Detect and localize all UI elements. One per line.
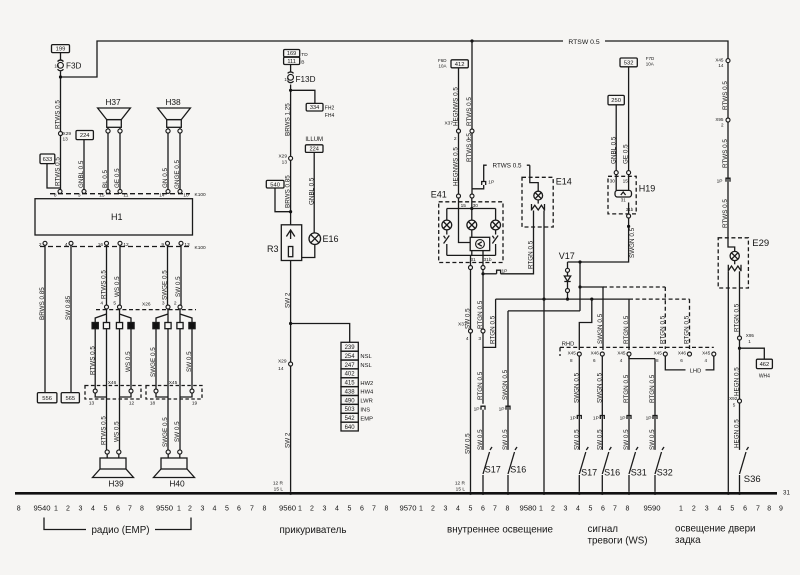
pin 10 of H1 (top row) bbox=[178, 189, 182, 193]
svg-text:SW 0.5: SW 0.5 bbox=[623, 429, 630, 450]
connector X29 pin 13 on radio feed bbox=[59, 132, 63, 136]
wire GNBL 0.5 from box 224 to H1 pin 3 bbox=[83, 140, 85, 192]
section caption: radio (EMP) with bracket bbox=[44, 518, 86, 530]
svg-text:1: 1 bbox=[467, 136, 470, 142]
svg-text:1: 1 bbox=[298, 505, 302, 512]
dashed variant wire to LHD connector X46 pin 6 bbox=[629, 299, 690, 349]
svg-text:503: 503 bbox=[345, 407, 356, 413]
svg-text:15: 15 bbox=[623, 178, 629, 184]
svg-text:13: 13 bbox=[89, 401, 95, 407]
svg-text:5: 5 bbox=[348, 505, 352, 512]
svg-text:565: 565 bbox=[65, 396, 75, 402]
connector X46 pin 6 (alarm) bbox=[600, 352, 604, 356]
wire SWGN 0.5 to alarm switch S17 bbox=[578, 356, 580, 450]
pin 30 of H19 bbox=[614, 171, 618, 175]
pin 4 of H1 (bottom row) bbox=[69, 241, 73, 245]
courtesy lamp unit E14 bbox=[522, 177, 553, 227]
svg-text:F6D: F6D bbox=[438, 58, 447, 63]
connector row K100 bottom of radio H1 bbox=[40, 246, 190, 248]
wire SW 0.85 from H1 pin 4 to box 565 bbox=[70, 245, 72, 392]
connector X45 pin 8 (alarm) bbox=[577, 352, 581, 356]
wire BRWS 0.85 from H1 pin 2 to box 556 bbox=[44, 245, 46, 392]
svg-text:199: 199 bbox=[56, 47, 66, 53]
lamp 1 of E41 bbox=[442, 220, 452, 230]
wire WS 0.5 contact to connector X46 pin 12 bbox=[130, 329, 132, 389]
lamp of E29 bbox=[730, 251, 739, 260]
svg-text:6: 6 bbox=[481, 505, 485, 512]
tailgate lamp unit E29 bbox=[718, 238, 748, 288]
svg-text:2: 2 bbox=[721, 123, 724, 128]
svg-text:RTSW 0.5: RTSW 0.5 bbox=[568, 39, 599, 46]
terminal box 556 bbox=[37, 393, 57, 403]
wire vertical alarm feed node bbox=[579, 262, 581, 311]
connector 1P on interior switch S17 wire bbox=[481, 406, 485, 410]
svg-text:9590: 9590 bbox=[643, 503, 660, 512]
svg-text:HEGN 0.5: HEGN 0.5 bbox=[734, 367, 741, 396]
wire from box 199 to fuse F3D bbox=[60, 53, 62, 60]
svg-text:12: 12 bbox=[123, 242, 129, 248]
svg-text:6: 6 bbox=[360, 505, 364, 512]
svg-text:9560: 9560 bbox=[279, 503, 296, 512]
junction of bus with interior lighting feed bbox=[470, 39, 473, 42]
svg-text:RTGN 0.5: RTGN 0.5 bbox=[734, 303, 741, 332]
svg-text:6: 6 bbox=[237, 505, 241, 512]
LHD variant bracket bbox=[665, 356, 685, 370]
svg-text:224: 224 bbox=[80, 133, 90, 139]
svg-text:9570: 9570 bbox=[399, 503, 416, 512]
svg-text:X46: X46 bbox=[591, 351, 600, 356]
svg-text:1P: 1P bbox=[620, 416, 626, 422]
svg-text:12 R: 12 R bbox=[273, 480, 284, 486]
svg-text:TD: TD bbox=[301, 52, 308, 58]
svg-text:WS 0.5: WS 0.5 bbox=[114, 421, 121, 442]
connector X37 pin 1 bbox=[470, 129, 474, 133]
svg-text:X45: X45 bbox=[654, 351, 663, 356]
wire GN 0.5 speaker H38 left to H1 pin 14 bbox=[167, 133, 169, 191]
svg-text:169: 169 bbox=[287, 51, 296, 57]
svg-text:15: 15 bbox=[99, 192, 105, 198]
svg-text:6: 6 bbox=[743, 505, 747, 512]
plug contact (filled) bbox=[92, 323, 98, 329]
svg-text:16: 16 bbox=[98, 242, 104, 248]
pin 13 of H1 (bottom row) bbox=[179, 241, 183, 245]
svg-text:14: 14 bbox=[278, 366, 284, 372]
svg-text:640: 640 bbox=[345, 425, 356, 431]
svg-text:2: 2 bbox=[431, 505, 435, 512]
wire RTWS 0.5 from H1 pin 16 to connector X26 pin 4 bbox=[106, 245, 108, 305]
door switch S17 (alarm) bbox=[579, 452, 586, 474]
connector X26 pin 2 bbox=[178, 305, 182, 309]
wire GNBL 0.5 from box 224 to bulb E16 bbox=[313, 152, 315, 233]
wire E14 switch left contact to 1P/RTGN net bbox=[533, 211, 535, 228]
wire SWGN 0.5 alarm net to interior switch S16 bbox=[507, 311, 509, 450]
wire link connector X45 pin 4 to switch S32 bbox=[629, 356, 655, 450]
svg-text:7: 7 bbox=[756, 505, 760, 512]
connector X92 pin 5 bbox=[738, 399, 742, 403]
wire ground link V17 to rail dropper bbox=[496, 298, 544, 300]
three-position switch of E14 bbox=[537, 200, 539, 204]
svg-text:13: 13 bbox=[282, 160, 288, 166]
plug contact (filled) bbox=[189, 323, 195, 329]
wire GE 0.5 speaker H37 right to H1 pin 11 bbox=[119, 133, 121, 191]
svg-text:5: 5 bbox=[733, 403, 736, 408]
svg-text:5: 5 bbox=[225, 505, 229, 512]
svg-text:3: 3 bbox=[564, 505, 568, 512]
svg-text:RTWS 0.5: RTWS 0.5 bbox=[493, 163, 522, 170]
svg-text:WH4: WH4 bbox=[759, 374, 770, 380]
svg-text:12: 12 bbox=[129, 401, 135, 407]
svg-text:SW 2: SW 2 bbox=[285, 292, 292, 308]
svg-text:4: 4 bbox=[705, 358, 708, 363]
svg-text:SWGE 0.5: SWGE 0.5 bbox=[162, 417, 169, 447]
svg-text:SW 0.5: SW 0.5 bbox=[502, 429, 509, 450]
svg-text:6: 6 bbox=[680, 358, 683, 363]
svg-text:3: 3 bbox=[162, 301, 165, 307]
power source box 532 bbox=[620, 58, 637, 67]
svg-text:462: 462 bbox=[760, 362, 770, 368]
svg-text:4: 4 bbox=[466, 336, 469, 342]
svg-text:S36: S36 bbox=[744, 474, 761, 485]
pin 14 of H1 (top row) bbox=[166, 189, 170, 193]
wire RTGN 0.5 to alarm switch S31 bbox=[628, 356, 630, 450]
svg-text:RTWS 0.5: RTWS 0.5 bbox=[101, 270, 108, 299]
svg-text:S17: S17 bbox=[485, 464, 501, 474]
svg-text:H19: H19 bbox=[639, 183, 656, 193]
svg-text:BRWS 1.25: BRWS 1.25 bbox=[285, 103, 292, 136]
wire fan-out X26 pin 3 to plug contacts bbox=[156, 309, 168, 323]
svg-text:5: 5 bbox=[113, 301, 116, 307]
svg-text:8: 8 bbox=[263, 505, 267, 512]
svg-text:15 L: 15 L bbox=[456, 487, 466, 493]
terminal box 633 bbox=[40, 154, 55, 164]
svg-text:RTWS 0.5: RTWS 0.5 bbox=[55, 100, 62, 129]
lamp 2 of E41 bbox=[467, 220, 477, 230]
terminal box 540 bbox=[266, 180, 284, 188]
three-position switch of E29 bbox=[734, 261, 736, 265]
svg-text:V17: V17 bbox=[559, 251, 575, 261]
wire BL 0.5 speaker H37 left to H1 pin 15 bbox=[107, 133, 109, 191]
wire fuse F3D down to radio feed, junction with bus bbox=[60, 72, 62, 192]
svg-text:2: 2 bbox=[310, 505, 314, 512]
svg-text:1P: 1P bbox=[570, 416, 576, 422]
svg-text:31: 31 bbox=[621, 198, 627, 203]
svg-text:3: 3 bbox=[79, 505, 83, 512]
wire fan-out X26 pin 4 to plug contacts bbox=[95, 309, 106, 323]
svg-text:H38: H38 bbox=[165, 97, 181, 107]
svg-text:X29: X29 bbox=[278, 153, 287, 159]
svg-text:1: 1 bbox=[419, 505, 423, 512]
connector X46 pin 13 bbox=[93, 389, 97, 393]
pin 3 of H1 (top row) bbox=[82, 189, 86, 193]
svg-text:31: 31 bbox=[470, 257, 476, 263]
svg-text:GN 0.5: GN 0.5 bbox=[162, 168, 169, 188]
svg-text:H40: H40 bbox=[169, 479, 185, 489]
svg-text:SW 0.5: SW 0.5 bbox=[186, 351, 193, 372]
svg-text:10A: 10A bbox=[438, 64, 446, 69]
plug contact (filled) bbox=[153, 323, 159, 329]
wire horizontal link from interior S16 wire bbox=[508, 310, 580, 312]
svg-text:239: 239 bbox=[345, 345, 356, 351]
wire SW 0.5 from H1 pin 13 to connector X26 pin 2 bbox=[180, 245, 182, 305]
svg-text:R3: R3 bbox=[267, 244, 279, 254]
svg-text:X45: X45 bbox=[715, 57, 724, 62]
svg-text:30: 30 bbox=[610, 178, 616, 184]
svg-text:490: 490 bbox=[345, 398, 356, 404]
plug contact (open) bbox=[103, 323, 109, 329]
pin 8 of H1 (top row) bbox=[58, 189, 62, 193]
svg-text:6: 6 bbox=[116, 505, 120, 512]
wire E29 left contact direct to ground rail bbox=[727, 271, 729, 491]
svg-text:15: 15 bbox=[284, 77, 289, 82]
connector X46 pin 12 bbox=[129, 389, 133, 393]
svg-text:GNBL 0.5: GNBL 0.5 bbox=[610, 136, 617, 164]
svg-text:RTWS 0.5: RTWS 0.5 bbox=[89, 346, 96, 375]
svg-text:прикуриватель: прикуриватель bbox=[280, 525, 347, 536]
svg-text:SW 0.5: SW 0.5 bbox=[175, 276, 182, 297]
plug contact (open) bbox=[165, 323, 171, 329]
svg-text:X46: X46 bbox=[678, 351, 687, 356]
svg-text:31b: 31b bbox=[483, 257, 491, 263]
pin 9 of H1 (bottom row) bbox=[166, 241, 170, 245]
wire lamp supply rail inside E41 bbox=[447, 209, 496, 221]
svg-text:14: 14 bbox=[159, 192, 165, 198]
svg-text:532: 532 bbox=[624, 61, 634, 67]
svg-text:SW 0.5: SW 0.5 bbox=[649, 429, 656, 450]
svg-text:FH2: FH2 bbox=[325, 106, 335, 112]
wire branch to alarm switch S17 feed bbox=[579, 299, 592, 350]
svg-text:8: 8 bbox=[656, 358, 659, 363]
svg-text:RTGN 0.5: RTGN 0.5 bbox=[528, 240, 535, 269]
cigarette lighter R3 bbox=[281, 225, 301, 261]
svg-text:RTGN 0.5: RTGN 0.5 bbox=[623, 374, 630, 403]
svg-text:SWGN 0.5: SWGN 0.5 bbox=[573, 372, 580, 403]
wire from box 633 to radio feed bbox=[47, 164, 61, 188]
wire HEGNWS 0.5 box 412 to connector X37 pin 2 bbox=[458, 68, 460, 194]
svg-text:SW 0.85: SW 0.85 bbox=[65, 295, 72, 320]
svg-text:7: 7 bbox=[613, 505, 617, 512]
svg-text:LHD: LHD bbox=[690, 369, 702, 375]
wire RTGN 0.5 E29 right contact to connector X95 pin 1 bbox=[739, 271, 741, 336]
plug contact (open) bbox=[177, 323, 183, 329]
svg-text:7: 7 bbox=[372, 505, 376, 512]
svg-text:RTWS 0.5: RTWS 0.5 bbox=[722, 139, 729, 168]
pin 15 of H1 (top row) bbox=[106, 189, 110, 193]
svg-text:SW 0.5: SW 0.5 bbox=[573, 429, 580, 450]
svg-text:NSL: NSL bbox=[360, 354, 372, 360]
svg-text:SW 2: SW 2 bbox=[285, 432, 292, 448]
svg-text:GE 0.5: GE 0.5 bbox=[114, 168, 121, 188]
svg-text:сигнал: сигнал bbox=[588, 524, 619, 535]
svg-text:18: 18 bbox=[150, 401, 156, 407]
connector 1P on switch S17 wire bbox=[577, 416, 581, 420]
door switch S16 (interior lighting) bbox=[508, 452, 515, 474]
svg-text:438: 438 bbox=[345, 389, 356, 395]
wire label BRWS 0.85 bbox=[290, 160, 292, 224]
connector 1P on switch S31 wire bbox=[627, 416, 631, 420]
fuse F13D bbox=[288, 72, 294, 73]
svg-text:X95: X95 bbox=[746, 333, 755, 338]
svg-text:11: 11 bbox=[123, 192, 128, 198]
svg-text:4: 4 bbox=[91, 505, 95, 512]
svg-text:S32: S32 bbox=[657, 467, 673, 477]
wire branch with 1P connector to lamp E14 bbox=[472, 185, 484, 189]
wire alarm ground distribution (solid part) bbox=[544, 299, 629, 350]
svg-text:13: 13 bbox=[184, 242, 190, 248]
svg-text:H37: H37 bbox=[105, 97, 121, 107]
svg-text:SWGN 0.5: SWGN 0.5 bbox=[629, 227, 636, 258]
wire SWGN 0.5 to alarm switch S16 bbox=[601, 356, 603, 450]
svg-text:1P: 1P bbox=[474, 406, 480, 412]
svg-text:15 L: 15 L bbox=[274, 487, 284, 493]
svg-text:1: 1 bbox=[177, 505, 181, 512]
svg-text:WS 0.5: WS 0.5 bbox=[114, 276, 121, 297]
pin 31b of E41 bbox=[481, 266, 485, 270]
svg-text:10: 10 bbox=[54, 64, 59, 69]
svg-text:K100: K100 bbox=[195, 245, 207, 251]
svg-text:SW 0.5: SW 0.5 bbox=[174, 421, 181, 442]
wire SWGE 0.5 through-feed to speaker H40 left bbox=[167, 329, 169, 450]
svg-text:SWGN 0.5: SWGN 0.5 bbox=[597, 313, 604, 344]
ground rail 31 bbox=[15, 492, 777, 495]
terminal box 565 bbox=[61, 393, 79, 403]
svg-text:GNBL 0.5: GNBL 0.5 bbox=[78, 160, 85, 188]
svg-text:F13D: F13D bbox=[296, 75, 316, 84]
svg-text:3: 3 bbox=[444, 505, 448, 512]
lamp 3 of E41 bbox=[491, 220, 501, 230]
svg-text:8: 8 bbox=[140, 505, 144, 512]
svg-text:1P: 1P bbox=[499, 406, 505, 412]
junction to terminal stack bbox=[289, 322, 292, 325]
svg-text:NSL: NSL bbox=[360, 363, 372, 369]
svg-text:254: 254 bbox=[345, 354, 356, 360]
svg-text:9: 9 bbox=[779, 505, 783, 512]
svg-text:3: 3 bbox=[323, 505, 327, 512]
svg-text:X37: X37 bbox=[444, 121, 453, 127]
svg-text:7: 7 bbox=[128, 505, 132, 512]
svg-text:1: 1 bbox=[679, 505, 683, 512]
plug contact (filled) bbox=[128, 323, 134, 329]
terminal box 462 WH4 bbox=[756, 359, 772, 368]
svg-text:4: 4 bbox=[620, 358, 623, 363]
lamp of E14 bbox=[534, 191, 543, 200]
svg-text:542: 542 bbox=[345, 416, 356, 422]
wire RTGN 0.5 E41 pin 31b to switch S17 bbox=[482, 270, 484, 404]
wire SW 0.5 contact to connector X45 pin 19 bbox=[191, 329, 193, 389]
svg-text:2: 2 bbox=[174, 301, 177, 307]
pin 12 of H1 (bottom row) bbox=[118, 241, 122, 245]
pin 15 of H19 bbox=[627, 171, 631, 175]
svg-text:WS 0.5: WS 0.5 bbox=[125, 351, 132, 372]
connector X37 pin 3 bbox=[481, 329, 485, 333]
fuse F3D bbox=[58, 60, 64, 62]
connector X26 pin 5 bbox=[118, 305, 122, 309]
power source box 111 terminal B bbox=[284, 57, 300, 64]
svg-text:SWGE 0.5: SWGE 0.5 bbox=[150, 347, 157, 377]
svg-text:4: 4 bbox=[335, 505, 339, 512]
svg-text:RTGN 0.5: RTGN 0.5 bbox=[490, 315, 497, 344]
svg-text:RTGN 0.5: RTGN 0.5 bbox=[477, 371, 484, 400]
wire E41 pin 15 to dimmer bbox=[459, 198, 471, 243]
door switch S16 (alarm) bbox=[602, 452, 609, 474]
svg-text:7: 7 bbox=[250, 505, 254, 512]
svg-text:EMP: EMP bbox=[360, 416, 373, 422]
svg-text:ILLUM: ILLUM bbox=[305, 137, 323, 143]
svg-text:SWGN 0.5: SWGN 0.5 bbox=[596, 372, 603, 403]
svg-text:31b: 31b bbox=[626, 207, 634, 212]
tailgate switch S36 bbox=[740, 452, 747, 474]
svg-text:RTWS 0.5: RTWS 0.5 bbox=[466, 97, 473, 126]
connector X95 pin 2 bbox=[726, 118, 730, 122]
pin 30 of E41 bbox=[470, 194, 474, 198]
wire RTWS 0.5 through-feed to speaker H39 left bbox=[106, 329, 108, 450]
svg-text:111: 111 bbox=[287, 59, 296, 65]
pin 2 of H1 (bottom row) bbox=[43, 241, 47, 245]
connector 1P on switch S32 wire bbox=[653, 416, 657, 420]
svg-text:2: 2 bbox=[66, 505, 70, 512]
svg-text:S31: S31 bbox=[631, 467, 647, 477]
svg-text:334: 334 bbox=[310, 105, 319, 111]
connector X45 pin 19 bbox=[190, 389, 194, 393]
svg-text:RTWS 0.5: RTWS 0.5 bbox=[722, 81, 729, 110]
svg-text:224: 224 bbox=[310, 147, 319, 153]
svg-text:X92: X92 bbox=[729, 396, 738, 401]
svg-text:3: 3 bbox=[201, 505, 205, 512]
wire SWGE 0.5 from H1 pin 9 to connector X26 pin 3 bbox=[167, 245, 169, 305]
speaker H39 bbox=[105, 450, 109, 454]
connector X45 pin 4 (alarm) bbox=[627, 352, 631, 356]
svg-text:2: 2 bbox=[454, 136, 457, 142]
pin 31 of E41 bbox=[469, 266, 473, 270]
door-contact switch under lamp 3 bbox=[495, 230, 497, 235]
svg-text:X26: X26 bbox=[142, 302, 151, 308]
wire GE 0.5 box 532 to H19 pin 15 bbox=[628, 67, 630, 171]
svg-text:5: 5 bbox=[589, 505, 593, 512]
svg-text:HW2: HW2 bbox=[360, 381, 373, 387]
wire from box 540 joining lighter feed bbox=[275, 188, 291, 212]
connector X45 pin 18 bbox=[154, 389, 158, 393]
wire: supply bus RTSW 0.5 from fuse F3D across top to tailgate feed bbox=[61, 41, 729, 238]
svg-text:3: 3 bbox=[78, 192, 81, 198]
svg-text:RTWS 0.5: RTWS 0.5 bbox=[101, 416, 108, 445]
dimmer/timer unit inside E41 bbox=[471, 230, 473, 237]
wire with 1P connector E41 pin 31b to lamp E14 ground bbox=[483, 273, 497, 275]
pin 15 of E41 bbox=[457, 194, 461, 198]
svg-text:RTGN 0.5: RTGN 0.5 bbox=[659, 315, 666, 344]
svg-text:HEGNWS 0.5: HEGNWS 0.5 bbox=[453, 87, 460, 126]
svg-text:GNBL 0.5: GNBL 0.5 bbox=[308, 177, 315, 205]
wire SW 0.5 E41 pin 31 to ground via X37 pin 4 bbox=[470, 270, 472, 492]
svg-text:X29: X29 bbox=[278, 359, 287, 365]
wire HEGN 0.5 to tailgate switch S36 bbox=[739, 403, 741, 450]
svg-text:8: 8 bbox=[767, 505, 771, 512]
svg-text:освещение двери: освещение двери bbox=[675, 523, 756, 534]
svg-text:14: 14 bbox=[718, 63, 724, 68]
svg-text:1P: 1P bbox=[717, 178, 723, 184]
wire E41 pin 30 to lamps bbox=[471, 198, 473, 220]
svg-text:GE 0.5: GE 0.5 bbox=[623, 144, 630, 164]
svg-text:1P: 1P bbox=[646, 416, 652, 422]
svg-text:E16: E16 bbox=[323, 234, 339, 244]
svg-text:3: 3 bbox=[705, 505, 709, 512]
connector 1P on interior switch S16 wire bbox=[506, 406, 510, 410]
svg-text:9540: 9540 bbox=[33, 503, 50, 512]
svg-text:SWGE 0.5: SWGE 0.5 bbox=[162, 270, 169, 300]
svg-text:E14: E14 bbox=[556, 177, 572, 187]
wire SWGE 0.5 contact to connector X45 pin 18 bbox=[155, 329, 157, 389]
svg-text:X45: X45 bbox=[568, 351, 577, 356]
connector X45 pin 4 (alarm) bbox=[712, 352, 716, 356]
svg-text:4: 4 bbox=[576, 505, 580, 512]
